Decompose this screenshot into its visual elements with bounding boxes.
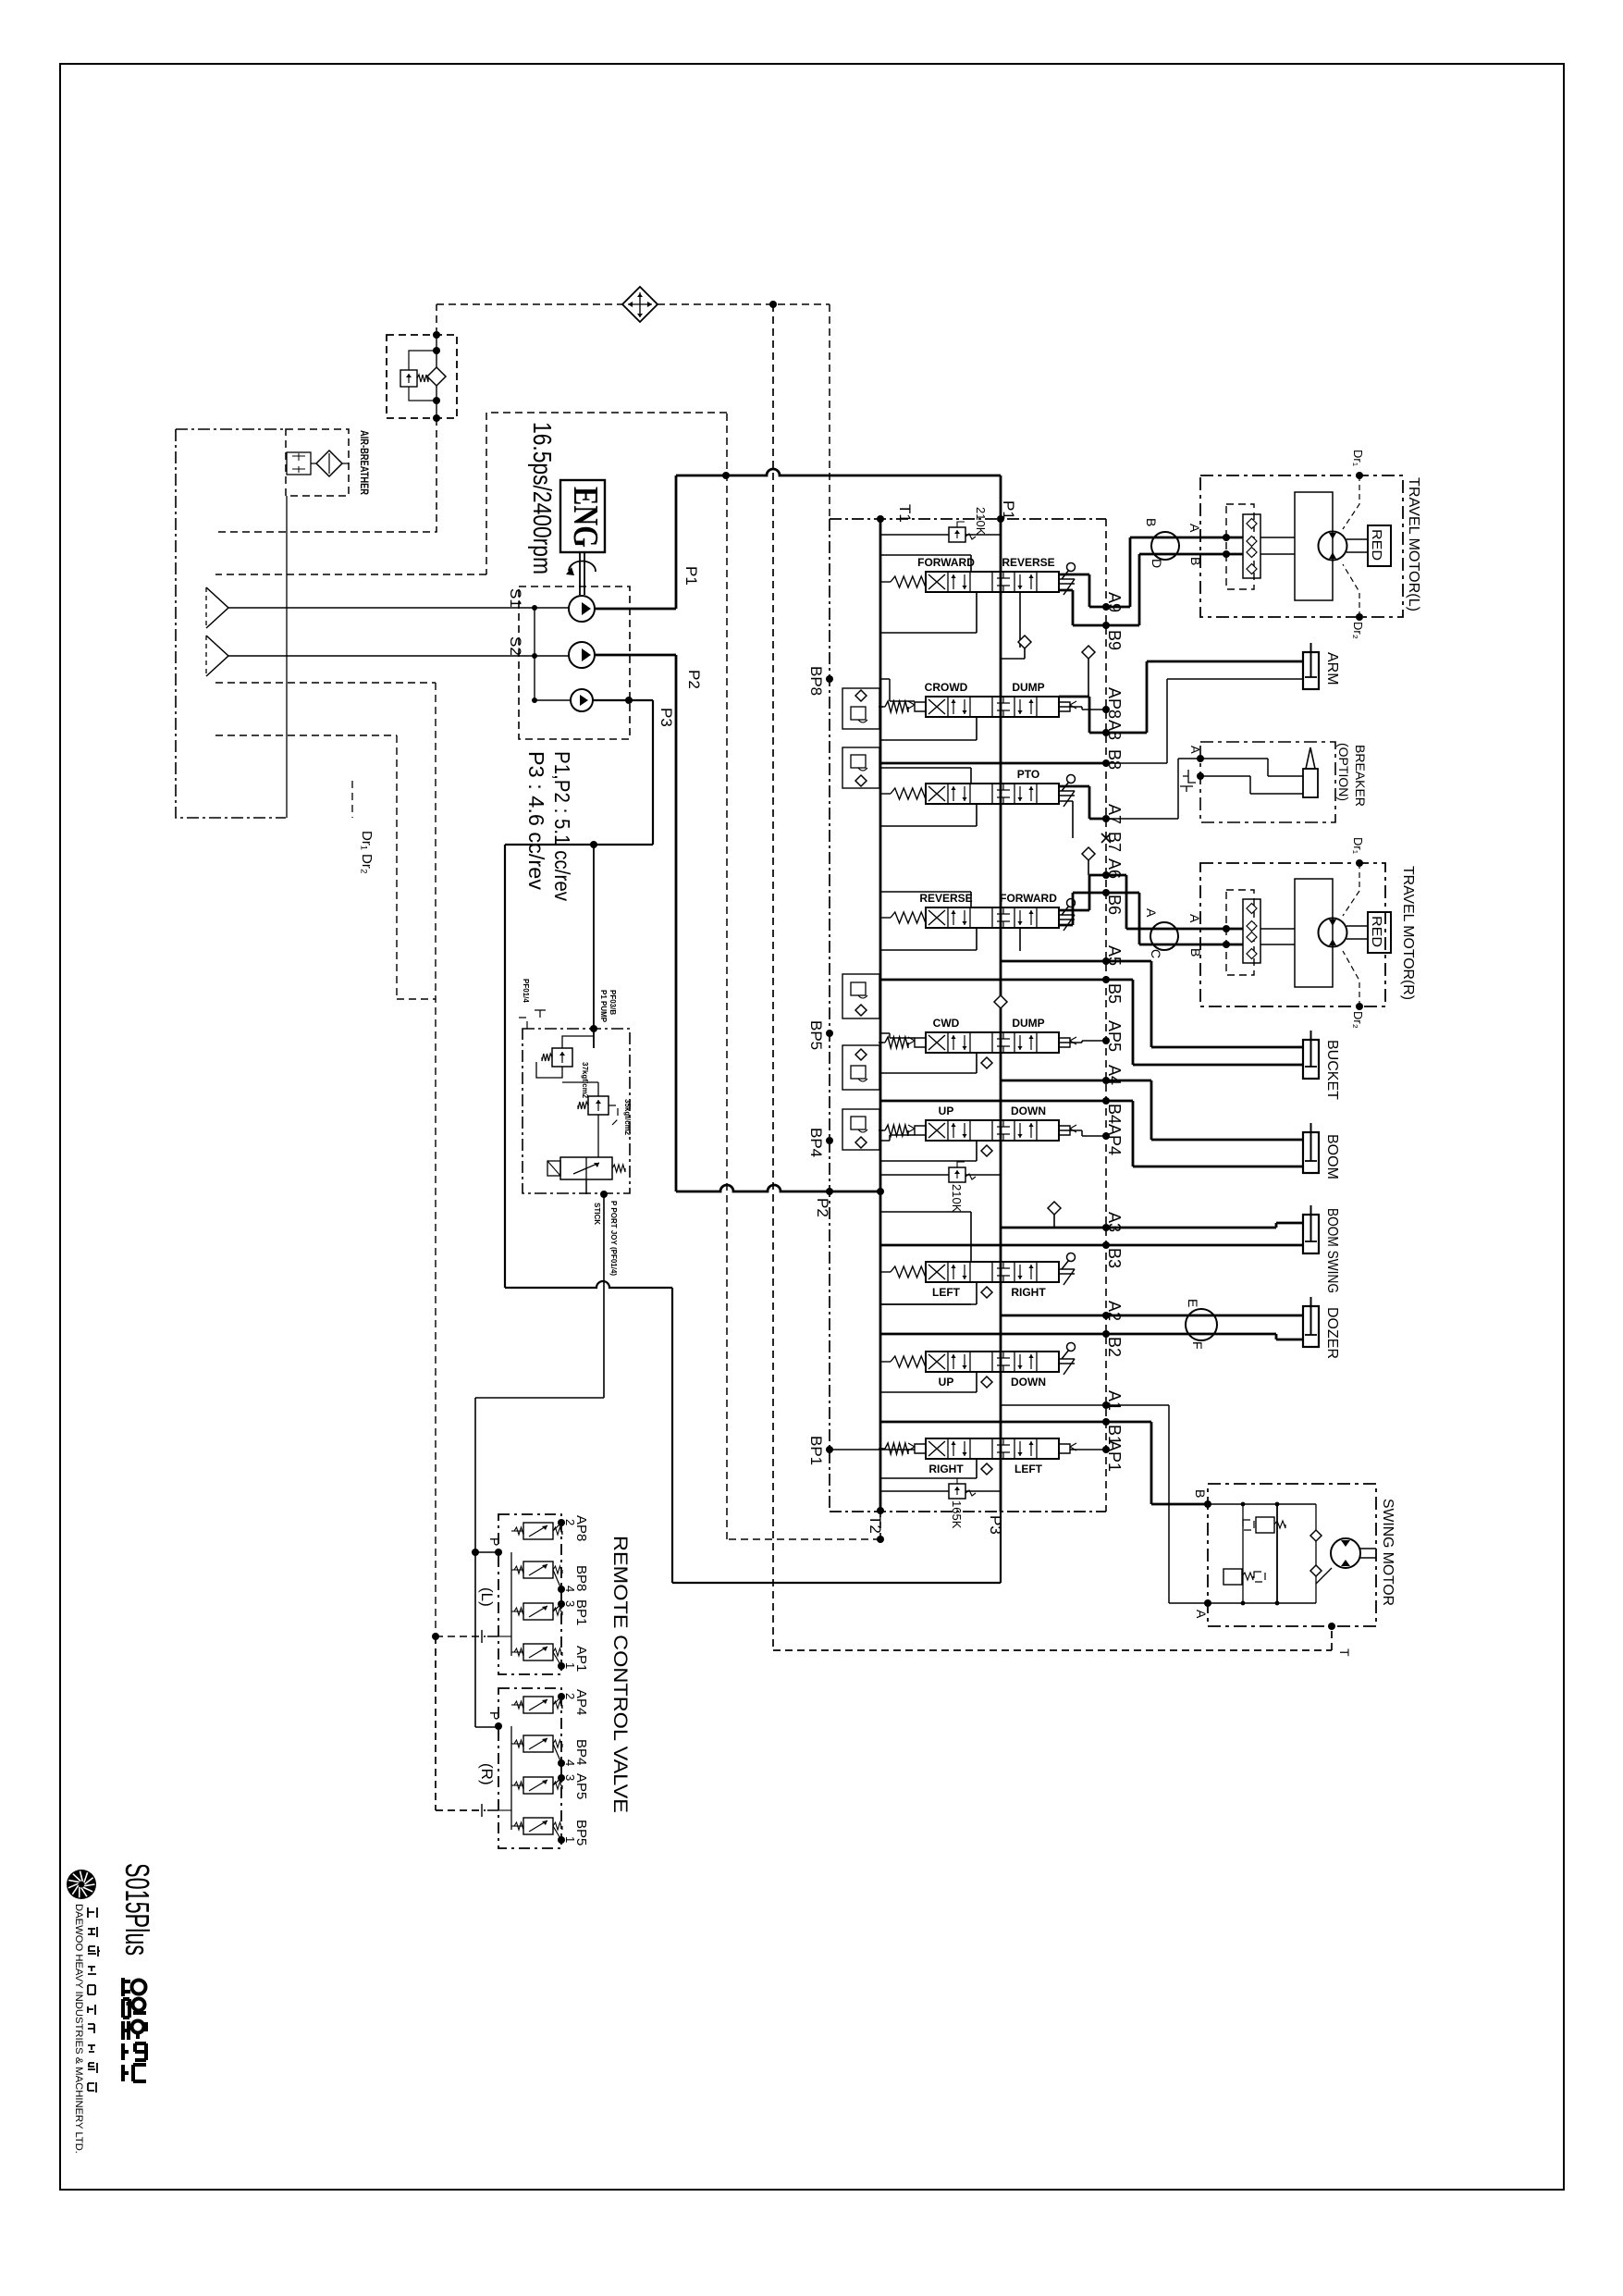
arm port relief cluster A (842, 688, 879, 729)
travel motor L box (1200, 475, 1403, 617)
travel motor R drain Dr2 (1356, 1003, 1363, 1010)
port rail (1105, 519, 1107, 1512)
remote control (L) reducing valve 1 (523, 1523, 553, 1539)
arm cylinder (1303, 652, 1319, 689)
travel motor L motor circle (1319, 532, 1347, 561)
drain line Dr1 Dr2 (215, 735, 436, 999)
pump P2 (569, 642, 595, 668)
junction on return header (769, 301, 777, 308)
travel motor L body (1295, 492, 1333, 600)
boom-swing below-body check (981, 1287, 992, 1298)
BP8 pilot port (826, 675, 833, 683)
svg-text:(OPTION): (OPTION) (1336, 743, 1351, 801)
svg-text:RIGHT: RIGHT (1011, 1286, 1046, 1299)
svg-text:Dr₂: Dr₂ (1351, 1011, 1365, 1029)
svg-text:A: A (1194, 1610, 1209, 1619)
svg-text:(L): (L) (478, 1587, 496, 1607)
svg-text:T1: T1 (896, 504, 914, 523)
wire B8 to arm cylinder (1106, 679, 1303, 763)
engine ENG box (560, 480, 605, 552)
remote control (R) internal rail (510, 1726, 512, 1830)
svg-text:Dr₁: Dr₁ (1351, 450, 1365, 467)
T2 return dashed line (215, 413, 880, 1539)
P1 supply line (595, 475, 676, 609)
svg-text:AP8: AP8 (573, 1515, 589, 1541)
remote control (L) reducing valve 4 (523, 1644, 553, 1660)
dozer section connections (880, 1303, 971, 1305)
swing motor internal rails (1208, 1503, 1316, 1505)
svg-text:REVERSE: REVERSE (919, 892, 972, 905)
travel motor L counterbalance valve (1243, 514, 1260, 578)
svg-text:B: B (1188, 557, 1203, 565)
arm section tank bridge (880, 706, 883, 708)
title Korean 유압회로도 (123, 1978, 146, 2081)
svg-text:165K: 165K (950, 1500, 964, 1529)
main relief 165K circuit3 (880, 1490, 1001, 1492)
tank rail T1-T2 (879, 519, 882, 1511)
svg-text:A9: A9 (1105, 592, 1124, 612)
svg-text:210K: 210K (950, 1184, 964, 1213)
svg-text:AIR-BREATHER: AIR-BREATHER (358, 430, 371, 495)
suction line S1 (228, 607, 569, 609)
boom section spool body (926, 1120, 1059, 1141)
svg-text:ARM: ARM (1324, 652, 1340, 685)
wire A3 to boom swing (1106, 1223, 1303, 1228)
travel-L section connections (880, 555, 971, 572)
svg-text:DOZER: DOZER (1324, 1307, 1340, 1359)
svg-text:BREAKER: BREAKER (1353, 745, 1368, 807)
remote control (L) box (498, 1514, 561, 1674)
main valve boundary (830, 519, 1106, 1512)
PTO section tank bridge (880, 793, 883, 795)
svg-text:BP5: BP5 (807, 1020, 825, 1050)
bucket section connections (880, 1033, 915, 1038)
svg-text:FORWARD: FORWARD (1000, 892, 1057, 905)
travel-R section connections (880, 892, 971, 907)
bucket load check (994, 995, 1007, 1008)
PF01/4 plug (514, 1018, 527, 1029)
bucket relief cluster A (842, 974, 879, 1018)
wire B9 to travel L (1106, 554, 1208, 625)
wire A9 to travel L (1106, 537, 1208, 607)
pressure rail P1-P2 (1000, 519, 1002, 1512)
swivel joint E/F (1186, 1309, 1217, 1340)
swing section return spring (885, 1443, 908, 1454)
swing motor circle (1331, 1538, 1360, 1568)
svg-text:BP8: BP8 (573, 1565, 589, 1591)
arm section spool body (926, 697, 1059, 717)
svg-text:37kgf/cm2: 37kgf/cm2 (581, 1062, 589, 1099)
svg-text:LEFT: LEFT (932, 1286, 961, 1299)
svg-text:P: P (487, 1711, 502, 1720)
arm port relief cluster B (842, 747, 879, 788)
svg-text:B4: B4 (1105, 1104, 1124, 1124)
suction strainer S2 (206, 636, 228, 676)
boom section tank bridge (880, 1129, 883, 1131)
svg-text:A8: A8 (1105, 720, 1124, 740)
check diamond (1082, 847, 1095, 860)
breaker hammer (1303, 769, 1318, 797)
relief valve 35kgf (588, 1096, 609, 1115)
svg-text:A2: A2 (1105, 1301, 1124, 1321)
svg-text:T2: T2 (867, 1515, 884, 1534)
svg-text:BP4: BP4 (573, 1739, 589, 1765)
filter bypass relief valve (400, 370, 417, 387)
remote control (L) output ports (558, 1519, 565, 1526)
svg-text:CWD: CWD (933, 1017, 960, 1030)
svg-text:B7: B7 (1105, 832, 1124, 852)
svg-text:TRAVEL MOTOR(L): TRAVEL MOTOR(L) (1406, 477, 1421, 611)
wire B3 to boom swing (1106, 1244, 1303, 1247)
swing relief cluster 1 (1256, 1517, 1274, 1533)
svg-text:DUMP: DUMP (1012, 681, 1044, 694)
travel motor L port lines (1208, 537, 1243, 554)
dozer cylinder (1303, 1306, 1319, 1347)
dozer section tank bridge (880, 1361, 883, 1363)
travel motor L drain Dr2 (1356, 613, 1363, 621)
svg-text:P: P (487, 1537, 502, 1546)
travel motor R body (1295, 879, 1333, 987)
pilot T drain to remote control (215, 683, 486, 1636)
svg-text:PTO: PTO (1017, 768, 1039, 781)
arm load check (1018, 636, 1031, 648)
pilot P to remote control L (472, 1549, 479, 1556)
dozer section return spring (891, 1356, 926, 1367)
svg-text:B9: B9 (1105, 630, 1124, 650)
svg-text:B6: B6 (1105, 895, 1124, 915)
pump block box (519, 586, 630, 739)
svg-text:DUMP: DUMP (1012, 1017, 1044, 1030)
arm section return spring (885, 701, 908, 712)
pilot P to remote control R (475, 1726, 498, 1728)
wire A1 to swing motor (1106, 1405, 1208, 1603)
svg-text:BP1: BP1 (573, 1599, 589, 1625)
engine shaft coupling (580, 552, 584, 595)
pump suction manifold (535, 608, 571, 700)
remote control (L) internal rail (510, 1552, 512, 1656)
svg-text:B: B (1188, 948, 1203, 957)
boom relief cluster (842, 1109, 879, 1150)
filter element (427, 367, 446, 386)
svg-text:A1: A1 (1105, 1390, 1124, 1411)
bucket section return spring (885, 1037, 908, 1048)
svg-text:B: B (1193, 1489, 1208, 1498)
boom swing section connections (880, 1212, 971, 1262)
svg-text:(R): (R) (478, 1763, 496, 1785)
svg-text:A: A (1188, 746, 1202, 754)
svg-text:210K: 210K (974, 507, 988, 536)
travel-L section tank bridge (880, 581, 883, 583)
tank line from air breather (286, 496, 288, 818)
PTO section manual lever (1067, 775, 1076, 784)
boom swing section return spring (891, 1266, 926, 1278)
remote control (R) reducing valve 3 (523, 1777, 553, 1794)
svg-text:B: B (1144, 518, 1159, 526)
travel-L section spool body (926, 572, 1059, 592)
wire B5 to bucket (1106, 980, 1303, 1065)
travel motor R port lines (1208, 929, 1243, 944)
svg-text:BOOM: BOOM (1324, 1134, 1340, 1179)
bucket below-body check (981, 1057, 992, 1068)
swivel joint A/C (1150, 922, 1178, 950)
travel motor R drain Dr1 (1356, 859, 1363, 867)
boom swing section manual lever (1067, 1253, 1076, 1262)
travel-R section manual lever (1067, 899, 1076, 907)
boom swing section spool body (926, 1262, 1059, 1282)
bucket relief cluster B (842, 1045, 879, 1090)
swing T port (1328, 1623, 1335, 1630)
svg-text:AP4: AP4 (1105, 1124, 1124, 1155)
svg-text:BP8: BP8 (807, 666, 825, 696)
travel motor L drain Dr1 (1356, 472, 1363, 479)
svg-text:AP8: AP8 (1105, 687, 1124, 719)
swing section spool body (926, 1438, 1059, 1459)
swing relief cluster 2 (1223, 1569, 1242, 1585)
dozer below-body check (981, 1376, 992, 1388)
relief valve 37kgf (552, 1048, 572, 1067)
svg-text:35kgf/cm2: 35kgf/cm2 (623, 1099, 632, 1136)
svg-text:Dr₁ Dr₂: Dr₁ Dr₂ (359, 831, 375, 874)
dozer section manual lever (1067, 1343, 1076, 1352)
pump P1 (569, 596, 595, 622)
remote control (L) reducing valve 2 (523, 1562, 553, 1578)
return filter block (387, 335, 457, 418)
check diamond (1048, 1202, 1061, 1215)
svg-text:DAEWOO HEAVY INDUSTRIES &: DAEWOO HEAVY INDUSTRIES & MACHINERY LTD. (73, 1904, 84, 2154)
svg-text:B2: B2 (1105, 1337, 1124, 1357)
P2 supply line (595, 655, 676, 1191)
remote control (R) reducing valve 1 (523, 1697, 553, 1713)
main relief 210K circuit2 (880, 1174, 1001, 1176)
svg-text:E: E (1186, 1299, 1200, 1307)
svg-text:C: C (1149, 949, 1163, 958)
wire A5 to bucket (1106, 961, 1303, 1047)
boom section return spring (885, 1125, 908, 1136)
return header dashed (436, 304, 437, 335)
svg-text:16.5ps/2400rpm: 16.5ps/2400rpm (528, 422, 557, 574)
wire A6 to travel R (1106, 875, 1208, 929)
company Korean small text (88, 1907, 100, 2092)
remote control (L) T port (482, 1630, 498, 1643)
svg-text:P1 PUMP: P1 PUMP (599, 990, 608, 1023)
svg-text:REMOTE CONTROL VALVE: REMOTE CONTROL VALVE (609, 1536, 631, 1813)
P PORT JOY output (600, 1191, 608, 1198)
svg-text:STICK: STICK (593, 1203, 601, 1225)
svg-text:RIGHT: RIGHT (928, 1463, 964, 1475)
svg-text:AP5: AP5 (1105, 1020, 1124, 1052)
travel motor L counterbalance outer (1226, 504, 1254, 589)
wire A2 to dozer (1106, 1315, 1303, 1317)
check 2 (1082, 646, 1095, 659)
swing section connections (830, 1449, 915, 1450)
remote control (R) box (498, 1688, 561, 1848)
PTO section return spring (891, 788, 926, 799)
travel motor R box (1200, 863, 1385, 1006)
Daewoo logo (67, 1870, 96, 1899)
BP1 pilot port (826, 1446, 833, 1453)
swing motor B port (1204, 1500, 1211, 1508)
swing motor A port (1204, 1599, 1211, 1607)
travel-R section tank bridge (880, 917, 883, 919)
swivel joint B/D (1151, 532, 1179, 560)
svg-text:P1: P1 (682, 566, 700, 586)
remote control (R) reducing valve 2 (523, 1735, 553, 1752)
filter return dashed to tank (217, 418, 436, 532)
bucket section tank bridge (880, 1042, 883, 1043)
P3 supply line (505, 700, 653, 1288)
BP4 pilot port (826, 1137, 833, 1144)
boom cylinder (1303, 1132, 1319, 1173)
4-way make-up symbol (622, 287, 658, 322)
svg-text:BP1: BP1 (807, 1436, 825, 1465)
suction line S2 (228, 655, 569, 657)
main relief 210K circuit1 (880, 534, 1001, 536)
svg-text:S1: S1 (507, 588, 524, 608)
remote control (R) P port (495, 1722, 502, 1730)
svg-text:RED: RED (1369, 916, 1384, 947)
svg-text:AP4: AP4 (573, 1689, 589, 1715)
breaker T port (1197, 772, 1204, 780)
svg-text:PF03/B: PF03/B (609, 990, 617, 1015)
boom section connections (880, 1135, 915, 1141)
svg-text:F: F (1190, 1341, 1205, 1350)
P1 PUMP line into block (593, 845, 595, 1048)
remote control (L) P port (495, 1549, 502, 1556)
remote control (L) reducing valve 3 (523, 1603, 553, 1620)
boom swing cylinder (1303, 1215, 1319, 1253)
svg-text:TRAVEL MOTOR(R): TRAVEL MOTOR(R) (1400, 866, 1416, 1000)
travel-R section spool body (926, 907, 1059, 928)
svg-text:LEFT: LEFT (1014, 1463, 1043, 1475)
svg-text:A5: A5 (1105, 945, 1124, 966)
svg-text:P2: P2 (685, 670, 703, 689)
svg-text:B8: B8 (1105, 749, 1124, 770)
breaker box (1200, 742, 1335, 822)
svg-text:BP5: BP5 (573, 1820, 589, 1845)
svg-text:UP: UP (939, 1105, 954, 1117)
svg-text:A7: A7 (1105, 804, 1124, 824)
travel motor R counterbalance valve (1243, 899, 1260, 963)
swing internal check line (1315, 1504, 1317, 1603)
svg-text:A: A (1187, 524, 1202, 533)
swing check diamonds (1310, 1530, 1322, 1541)
svg-text:A4: A4 (1105, 1065, 1124, 1085)
svg-text:A: A (1144, 908, 1159, 918)
svg-text:SWING MOTOR: SWING MOTOR (1380, 1499, 1396, 1606)
svg-text:UP: UP (939, 1376, 954, 1389)
wire A4 to boom (1106, 1080, 1303, 1140)
svg-text:CROWD: CROWD (925, 681, 968, 694)
svg-text:FORWARD: FORWARD (917, 556, 975, 569)
swing section pilot caps (915, 1444, 926, 1453)
svg-text:DOWN: DOWN (1011, 1105, 1046, 1117)
svg-text:T: T (1337, 1648, 1352, 1657)
bucket section spool body (926, 1032, 1059, 1053)
svg-text:BUCKET: BUCKET (1324, 1040, 1340, 1100)
svg-text:P1,P2 : 5.1 cc/rev: P1,P2 : 5.1 cc/rev (550, 751, 574, 901)
PTO section spool body (926, 784, 1059, 804)
svg-text:BOOM SWING: BOOM SWING (1324, 1208, 1340, 1293)
bucket section pilot caps (915, 1038, 926, 1047)
wire B6 to travel R (1106, 893, 1208, 944)
svg-text:P PORT JOY (PF01/4): P PORT JOY (PF01/4) (609, 1201, 618, 1276)
air breather (286, 429, 349, 496)
travel motor R counterbalance outer (1226, 890, 1254, 975)
swing motor box (1208, 1484, 1376, 1626)
swing below-body check (981, 1463, 992, 1475)
boom below-body check (981, 1145, 992, 1156)
svg-text:P3: P3 (987, 1515, 1004, 1535)
wire B2 to dozer (1106, 1334, 1303, 1339)
pilot pressure block (523, 1029, 630, 1193)
svg-text:RED: RED (1369, 529, 1384, 561)
svg-text:B3: B3 (1105, 1248, 1124, 1268)
svg-text:DOWN: DOWN (1011, 1376, 1046, 1389)
dozer section spool body (926, 1352, 1059, 1372)
travel-R section return spring (891, 912, 926, 923)
svg-text:A: A (1187, 914, 1202, 923)
svg-text:PF01/4: PF01/4 (522, 979, 530, 1003)
suction strainer S1 (206, 587, 228, 628)
remote control (R) reducing valve 4 (523, 1818, 553, 1834)
arm section connections (880, 679, 915, 701)
svg-text:BP4: BP4 (807, 1128, 825, 1157)
svg-text:P1: P1 (1000, 500, 1017, 520)
remote control (R) output ports (558, 1693, 565, 1700)
svg-text:S015Plus: S015Plus (118, 1863, 156, 1956)
svg-text:A3: A3 (1105, 1212, 1124, 1232)
pump P3 (571, 689, 593, 711)
svg-text:REVERSE: REVERSE (1002, 556, 1054, 569)
svg-text:AP1: AP1 (1105, 1440, 1124, 1472)
svg-text:AP5: AP5 (573, 1773, 589, 1799)
svg-text:AP1: AP1 (573, 1646, 589, 1672)
breaker A port (1197, 755, 1204, 762)
svg-text:B5: B5 (1105, 983, 1124, 1004)
remote control (R) T port (482, 1804, 498, 1817)
port B7 mark (1101, 833, 1111, 843)
travel-L section manual lever (1067, 563, 1076, 572)
wire B4 to boom (1106, 1101, 1303, 1167)
wire A7 to breaker (1106, 759, 1200, 819)
boom swing section tank bridge (880, 1271, 883, 1273)
travel motor R RED box (1368, 912, 1391, 953)
travel-L section return spring (891, 576, 926, 587)
wire A8 to arm cylinder (1106, 661, 1303, 733)
PTO section connections (880, 768, 971, 784)
swing section tank bridge (880, 1448, 883, 1450)
tank return dashed down to swing T (773, 304, 1332, 1650)
svg-text:ENG: ENG (566, 487, 605, 548)
travel motor L RED box (1368, 525, 1391, 566)
BP5 pilot port (826, 1030, 833, 1037)
boom section pilot caps (915, 1126, 926, 1135)
svg-text:Dr₁: Dr₁ (1351, 837, 1365, 855)
svg-text:Dr₂: Dr₂ (1351, 622, 1365, 639)
solenoid valve (560, 1157, 612, 1179)
wire B1 to swing motor (1106, 1422, 1208, 1504)
tank boundary (reservoir) (176, 429, 286, 818)
bucket cylinder (1303, 1040, 1319, 1079)
svg-text:P3: P3 (658, 708, 675, 727)
svg-text:S2: S2 (507, 636, 524, 656)
arm section pilot caps (915, 702, 926, 711)
svg-text:D: D (1150, 559, 1164, 568)
travel motor R motor circle (1319, 919, 1347, 947)
svg-text:P3 : 4.6 cc/rev: P3 : 4.6 cc/rev (524, 751, 548, 891)
